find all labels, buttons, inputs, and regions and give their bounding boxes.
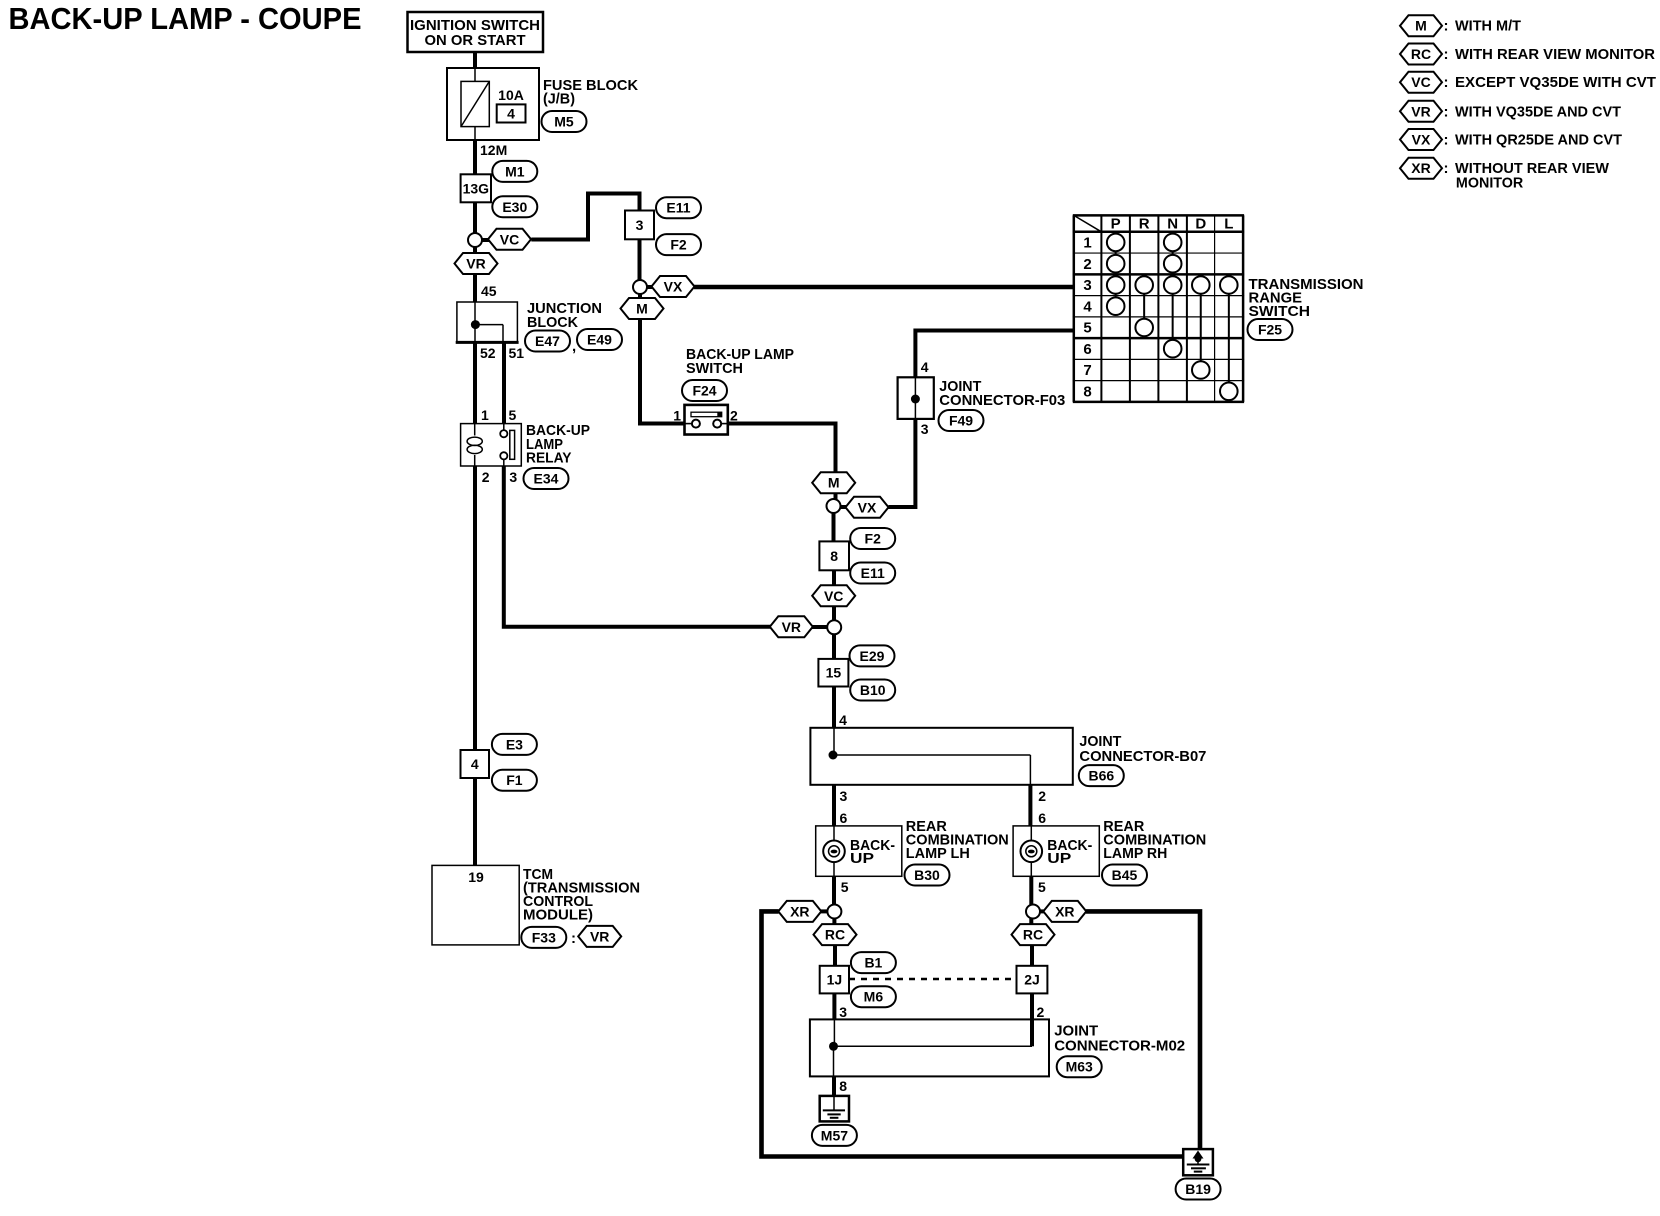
svg-text:LAMP LH: LAMP LH [906,845,970,862]
svg-text:M: M [1415,18,1427,34]
svg-text:E11: E11 [666,200,690,216]
svg-text:M1: M1 [505,163,525,179]
svg-text:1: 1 [673,408,681,424]
svg-text:P: P [1111,216,1121,233]
svg-text:1J: 1J [827,972,843,988]
svg-text:ON OR START: ON OR START [425,32,526,49]
svg-text:XR: XR [1411,160,1430,176]
svg-text:8: 8 [1083,383,1091,400]
svg-text:F25: F25 [1258,322,1282,338]
svg-text:3: 3 [840,788,848,804]
svg-text:VR: VR [466,256,485,272]
svg-text:F24: F24 [692,383,716,399]
svg-text:E3: E3 [506,736,523,752]
svg-text:E11: E11 [861,565,885,581]
svg-text:B66: B66 [1088,768,1114,784]
svg-text:12M: 12M [480,142,507,158]
svg-text:3: 3 [921,421,929,437]
svg-text:E29: E29 [860,648,885,664]
svg-text:BACK-UP LAMP - COUPE: BACK-UP LAMP - COUPE [9,1,362,36]
svg-text:(J/B): (J/B) [543,91,575,108]
svg-text:1: 1 [1083,235,1091,252]
svg-text:4: 4 [471,756,479,772]
svg-text::: : [1444,46,1449,63]
svg-text:WITH M/T: WITH M/T [1455,18,1521,35]
svg-text:XR: XR [1055,903,1074,919]
svg-text:8: 8 [839,1078,847,1094]
svg-text:VC: VC [1411,74,1430,90]
svg-text:N: N [1167,216,1178,233]
svg-text:RC: RC [825,927,845,943]
svg-text:10A: 10A [498,87,524,103]
svg-text::: : [1444,74,1449,91]
svg-text:F2: F2 [865,531,882,547]
svg-text:MODULE): MODULE) [523,907,593,924]
svg-text::: : [1444,18,1449,35]
svg-text:4: 4 [1083,298,1092,315]
svg-text:E49: E49 [587,332,612,348]
svg-text:EXCEPT VQ35DE WITH CVT: EXCEPT VQ35DE WITH CVT [1455,74,1656,91]
svg-text:B10: B10 [860,682,886,698]
svg-text:6: 6 [1083,341,1091,358]
svg-text:LAMP RH: LAMP RH [1103,845,1167,862]
svg-text:2J: 2J [1024,972,1040,988]
svg-text:VX: VX [664,279,683,295]
svg-text:5: 5 [509,407,517,423]
svg-text:B30: B30 [914,867,940,883]
svg-text::: : [1444,103,1449,120]
svg-text:5: 5 [1083,320,1091,337]
svg-text:E30: E30 [502,199,527,215]
svg-text:51: 51 [509,345,525,361]
svg-text:13G: 13G [463,180,490,196]
svg-text:MONITOR: MONITOR [1456,175,1524,192]
svg-text:7: 7 [1083,362,1091,379]
svg-text:E34: E34 [534,471,559,487]
svg-text:1: 1 [481,407,489,423]
svg-text:UP: UP [1047,850,1071,867]
svg-text:5: 5 [841,879,849,895]
svg-text:6: 6 [840,810,848,826]
svg-text:D: D [1195,216,1206,233]
svg-text:VC: VC [824,588,843,604]
svg-text:SWITCH: SWITCH [686,360,743,377]
svg-text:3: 3 [839,1004,847,1020]
svg-text:R: R [1139,216,1150,233]
svg-text:4: 4 [507,106,515,122]
svg-text:3: 3 [509,469,517,485]
svg-text:2: 2 [1037,1004,1045,1020]
svg-text:15: 15 [826,665,842,681]
svg-text:F33: F33 [532,929,556,945]
svg-text:WITH QR25DE AND CVT: WITH QR25DE AND CVT [1455,132,1622,149]
svg-text:VR: VR [590,928,609,944]
svg-text:RC: RC [1023,927,1043,943]
svg-text:2: 2 [730,408,738,424]
svg-text:RELAY: RELAY [526,450,572,467]
svg-text:8: 8 [830,548,838,564]
svg-text:B1: B1 [864,955,882,971]
svg-text:CONNECTOR-F03: CONNECTOR-F03 [939,392,1065,409]
svg-text:M57: M57 [821,1127,848,1143]
svg-text:B19: B19 [1185,1181,1211,1197]
svg-text:VX: VX [858,499,877,515]
svg-text:5: 5 [1038,879,1046,895]
svg-text::: : [1444,132,1449,149]
svg-text:WITH REAR VIEW MONITOR: WITH REAR VIEW MONITOR [1455,46,1655,63]
svg-text:2: 2 [1038,788,1046,804]
svg-text:F1: F1 [506,772,523,788]
svg-text:3: 3 [636,217,644,233]
svg-text:CONNECTOR-B07: CONNECTOR-B07 [1079,748,1206,765]
svg-text:WITH VQ35DE AND CVT: WITH VQ35DE AND CVT [1455,103,1621,120]
svg-text:M: M [636,301,648,317]
svg-text:19: 19 [468,869,484,885]
svg-text:M5: M5 [554,114,574,130]
svg-text:XR: XR [790,903,809,919]
svg-text:SWITCH: SWITCH [1249,303,1311,320]
svg-text:UP: UP [850,850,874,867]
svg-text:VX: VX [1412,132,1431,148]
svg-text:M: M [828,475,840,491]
svg-text::: : [571,930,576,947]
svg-text:VC: VC [500,231,519,247]
svg-text:M6: M6 [864,989,884,1005]
svg-text:BLOCK: BLOCK [527,314,578,331]
svg-text:4: 4 [921,359,929,375]
svg-text:,: , [572,338,576,355]
svg-text:VR: VR [782,619,801,635]
svg-text:2: 2 [482,469,490,485]
svg-text:VR: VR [1411,103,1430,119]
svg-text:F2: F2 [670,237,687,253]
svg-text:52: 52 [480,345,496,361]
svg-text:6: 6 [1038,810,1046,826]
svg-text:F49: F49 [949,413,973,429]
svg-text::: : [1444,160,1449,177]
svg-text:M63: M63 [1066,1059,1093,1075]
svg-text:L: L [1224,216,1233,233]
svg-text:4: 4 [839,712,847,728]
svg-text:3: 3 [1083,277,1091,294]
svg-text:E47: E47 [535,333,560,349]
svg-text:CONNECTOR-M02: CONNECTOR-M02 [1054,1038,1185,1055]
svg-text:B45: B45 [1112,867,1138,883]
svg-text:RC: RC [1411,46,1431,62]
svg-text:2: 2 [1083,256,1091,273]
svg-text:45: 45 [481,283,497,299]
